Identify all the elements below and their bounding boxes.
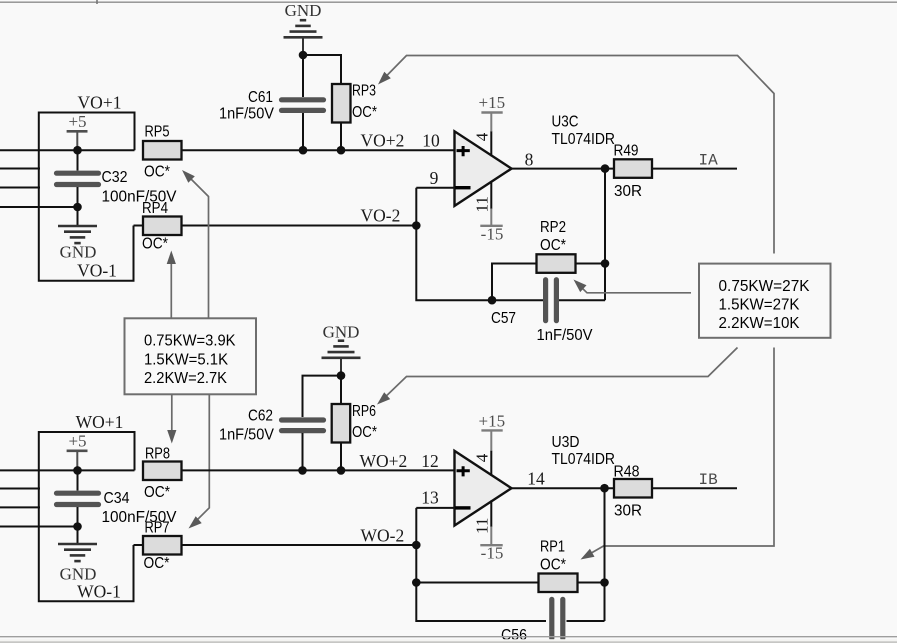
node junction C62/WO+2: [298, 466, 307, 475]
wire feedback bottom right segment U3D: [567, 620, 605, 622]
capacitor C61: [282, 100, 324, 111]
wire left input stubs WO block: [0, 470, 135, 526]
wire output to feedback vertical U3D: [604, 488, 606, 621]
op-amp U3C plus input symbol: [457, 146, 470, 156]
svg-text:C61: C61: [248, 89, 273, 106]
wire IA output: [652, 168, 737, 170]
resistor RP3 (vertical): [332, 84, 351, 123]
svg-text:RP3: RP3: [352, 83, 376, 100]
power -15 U3C: [480, 181, 503, 243]
svg-text:30R: 30R: [614, 503, 642, 520]
annotation line to RP2: [577, 283, 692, 293]
svg-text:-15: -15: [481, 544, 504, 563]
capacitor C57 (vertical plates): [546, 280, 557, 321]
resistor RP7: [143, 536, 182, 555]
pin 9 wire to inverting input: [416, 188, 454, 226]
wire RP7 left stub: [134, 544, 144, 546]
op-amp U3C triangle: [455, 131, 512, 206]
wire RP2 right lead: [576, 263, 606, 265]
svg-text:GND: GND: [60, 565, 97, 584]
svg-text:U3D: U3D: [552, 434, 580, 451]
wire ground lead: [77, 207, 79, 226]
svg-text:C32: C32: [102, 169, 128, 186]
svg-text:OC*: OC*: [142, 236, 168, 253]
wire C34 bottom lead: [77, 507, 79, 527]
node junction +5/VO+1: [73, 146, 82, 155]
node junction GND/C62/RP6: [337, 371, 346, 380]
node junction RP6/WO+2: [337, 466, 346, 475]
resistor RP4: [143, 217, 182, 236]
svg-text:OC*: OC*: [352, 104, 377, 121]
svg-text:13: 13: [421, 488, 439, 508]
node junction +5/WO+1: [73, 466, 82, 475]
svg-text:OC*: OC*: [144, 164, 170, 181]
node junction feedback bottom: [488, 296, 497, 305]
svg-text:VO-2: VO-2: [361, 206, 401, 226]
svg-text:+15: +15: [479, 412, 506, 431]
svg-text:RP7: RP7: [145, 520, 170, 537]
svg-text:1nF/50V: 1nF/50V: [219, 106, 275, 123]
annotation arrowhead at RP8: [167, 430, 176, 444]
svg-text:0.75KW=27K: 0.75KW=27K: [719, 278, 811, 295]
svg-text:U3C: U3C: [552, 114, 579, 131]
svg-text:C57: C57: [491, 310, 516, 327]
svg-text:4: 4: [473, 132, 492, 141]
node junction RP1 left: [412, 578, 421, 587]
annotation line to RP4: [170, 258, 172, 318]
node junction RP1 right: [600, 578, 609, 587]
wire C62 bottom lead: [302, 433, 304, 470]
wire feedback bottom right segment: [559, 299, 605, 301]
svg-text:OC*: OC*: [144, 555, 170, 572]
wire junction to C62 top: [303, 376, 342, 417]
svg-text:+15: +15: [479, 93, 506, 112]
resistor R48: [614, 479, 652, 498]
svg-text:WO+1: WO+1: [76, 412, 124, 432]
svg-text:RP8: RP8: [145, 446, 170, 463]
svg-text:C34: C34: [104, 490, 130, 507]
annotation arrowhead at RP1: [581, 549, 595, 560]
annotation line to RP8: [171, 394, 173, 436]
svg-text:VO+2: VO+2: [361, 131, 405, 151]
svg-text:8: 8: [525, 150, 534, 170]
wire C32 top lead: [77, 150, 79, 170]
svg-text:VO+1: VO+1: [78, 93, 122, 113]
svg-text:RP1: RP1: [540, 539, 565, 556]
op-amp U3D minus input symbol: [455, 506, 470, 509]
op-amp U3C minus input symbol: [455, 186, 470, 189]
annotation line to RP6: [380, 348, 738, 403]
resistor RP2: [537, 254, 576, 272]
svg-text:TL074IDR: TL074IDR: [552, 451, 616, 468]
note box left (KW=3.9K table): [125, 318, 257, 394]
svg-text:OC*: OC*: [352, 424, 377, 441]
ground GND below C32: [58, 226, 97, 243]
wire WO+2 net RP8 to op-amp: [182, 469, 455, 471]
resistor RP5: [143, 141, 182, 160]
ground GND mid (inverted) above RP6: [322, 341, 361, 358]
power +5 supply WO: [67, 432, 88, 471]
wire junction to RP3 top: [303, 55, 341, 84]
svg-text:-15: -15: [481, 224, 504, 243]
svg-text:10: 10: [422, 131, 440, 151]
wire WO block outline WO+1/WO-1 loop: [39, 432, 135, 601]
svg-text:1nF/50V: 1nF/50V: [219, 427, 275, 444]
capacitor C32: [57, 173, 99, 184]
wire GND to junction mid: [340, 359, 342, 376]
wire U3D output pin 14: [512, 487, 615, 489]
node junction output/R48: [600, 484, 609, 493]
window top border: [0, 0, 897, 4]
svg-text:11: 11: [473, 196, 492, 212]
wire VO-2 net RP4 to junction: [182, 225, 417, 227]
wire C34 top lead: [77, 470, 79, 490]
svg-text:R49: R49: [614, 143, 639, 160]
svg-text:IB: IB: [699, 471, 718, 489]
power -15 U3D: [480, 500, 503, 562]
annotation arrowhead at RP4: [167, 251, 176, 265]
svg-text:14: 14: [527, 469, 545, 489]
node junction VO-2: [412, 221, 421, 230]
annotation arrowhead at RP5: [182, 170, 195, 183]
svg-text:12: 12: [421, 451, 439, 471]
svg-text:30R: 30R: [614, 183, 642, 200]
svg-text:GND: GND: [323, 323, 360, 342]
svg-text:+5: +5: [68, 112, 86, 131]
svg-text:+5: +5: [68, 432, 86, 451]
resistor RP6 (vertical): [332, 404, 351, 443]
annotation arrowhead at RP3: [378, 72, 391, 85]
resistor RP8: [143, 462, 182, 481]
wire U3C output pin 8: [512, 168, 615, 170]
svg-text:1.5KW=5.1K: 1.5KW=5.1K: [144, 352, 229, 369]
svg-text:GND: GND: [285, 1, 322, 20]
node junction C61/VO+2: [299, 146, 308, 155]
svg-text:4: 4: [473, 453, 492, 462]
note box right (KW=27K table): [699, 264, 831, 338]
annotation line to RP7: [191, 394, 209, 526]
wire WO-2 net RP7 to junction: [182, 544, 417, 546]
svg-text:RP4: RP4: [142, 200, 168, 217]
ground GND top (inverted) above C61: [284, 20, 323, 37]
node junction RP3/VO+2: [337, 146, 346, 155]
node junction C34/GND: [73, 522, 82, 531]
wire VO block outline VO+1/VO-1 loop: [39, 113, 135, 281]
pin 13 wire to inverting input: [416, 508, 454, 545]
svg-text:1.5KW=27K: 1.5KW=27K: [719, 297, 801, 314]
svg-text:2.2KW=10K: 2.2KW=10K: [719, 315, 801, 332]
wire C61 bottom lead: [302, 113, 304, 150]
power +5 supply: [67, 112, 88, 150]
annotation arrowhead at RP7: [189, 516, 202, 528]
ground GND below C34: [58, 544, 97, 561]
wire RP4 left stub: [134, 225, 144, 227]
wire ground lead WO: [77, 527, 79, 544]
wire RP1 right lead: [578, 582, 605, 584]
capacitor C34: [57, 493, 99, 504]
svg-text:0.75KW=3.9K: 0.75KW=3.9K: [144, 333, 236, 350]
resistor RP1: [539, 574, 578, 593]
svg-text:11: 11: [473, 518, 492, 534]
svg-text:WO-1: WO-1: [77, 582, 121, 602]
annotation arrowhead at RP2: [574, 280, 587, 293]
power +15 U3C: [479, 93, 506, 156]
wire RP6 leads: [340, 376, 342, 471]
svg-text:WO-2: WO-2: [361, 526, 405, 546]
svg-text:GND: GND: [60, 243, 97, 262]
node junction C32/GND: [73, 203, 82, 212]
wire IB output: [652, 487, 737, 489]
svg-text:9: 9: [430, 168, 439, 188]
svg-text:C62: C62: [248, 408, 273, 425]
annotation line to RP5: [185, 173, 209, 318]
op-amp U3D plus input symbol: [457, 466, 470, 476]
window bottom border: [0, 637, 897, 643]
wire left input stubs VO block: [0, 150, 135, 207]
annotation line to RP1: [584, 348, 775, 558]
svg-text:TL074IDR: TL074IDR: [552, 131, 616, 148]
svg-text:1nF/50V: 1nF/50V: [537, 327, 594, 344]
wire GND to junction: [302, 39, 304, 56]
node junction output/R49: [601, 164, 610, 173]
svg-text:2.2KW=2.7K: 2.2KW=2.7K: [144, 370, 228, 387]
annotation line to RP3: [381, 56, 774, 254]
svg-text:WO+2: WO+2: [360, 451, 408, 471]
node junction RP2 right: [601, 259, 610, 268]
wire RP1 left lead: [416, 582, 538, 584]
svg-text:RP2: RP2: [540, 219, 566, 236]
wire RP2 left lead: [492, 264, 537, 301]
node junction GND/C61/RP3: [299, 51, 308, 60]
svg-text:OC*: OC*: [144, 484, 170, 501]
wire feedback bottom left segment U3D: [416, 545, 546, 621]
svg-text:RP5: RP5: [145, 124, 170, 141]
wire C32 bottom lead: [77, 187, 79, 207]
svg-text:OC*: OC*: [540, 237, 566, 254]
annotation arrowhead at RP6: [377, 392, 390, 404]
svg-text:VO-1: VO-1: [77, 261, 117, 281]
capacitor C62: [282, 420, 324, 431]
wire RP3 bottom lead: [340, 123, 342, 151]
op-amp U3D triangle: [455, 451, 512, 526]
wire VO+2 net RP5 to op-amp: [182, 149, 455, 151]
svg-text:IA: IA: [699, 152, 719, 170]
node junction WO-2: [412, 541, 421, 550]
svg-text:RP6: RP6: [352, 403, 376, 420]
wire feedback bottom left segment: [416, 226, 543, 301]
svg-text:R48: R48: [614, 464, 640, 481]
svg-text:OC*: OC*: [540, 557, 566, 574]
resistor R49: [614, 159, 652, 178]
power +15 U3D: [479, 412, 506, 476]
wire output to feedback vertical: [604, 169, 606, 301]
wire C61 top lead: [302, 55, 304, 97]
capacitor C56 (vertical plates): [552, 599, 563, 638]
